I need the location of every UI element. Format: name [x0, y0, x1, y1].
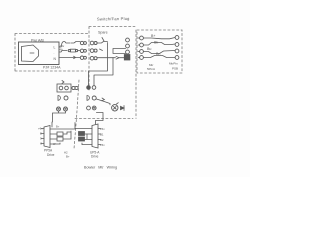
svg-text:5PinA: 5PinA — [147, 67, 155, 71]
svg-text:B+: B+ — [151, 34, 156, 38]
svg-text:Drive: Drive — [91, 155, 99, 159]
svg-text:E: E — [40, 132, 42, 136]
svg-text:N: N — [54, 57, 57, 61]
svg-text:Bu: Bu — [147, 47, 151, 51]
svg-text:Bk: Bk — [154, 41, 158, 45]
svg-text:PJ# 1234A: PJ# 1234A — [43, 66, 61, 70]
svg-text:Switch/Fan Plug: Switch/Fan Plug — [97, 16, 130, 22]
svg-text:4A: 4A — [60, 48, 63, 52]
svg-text:Drive: Drive — [47, 153, 55, 157]
svg-text:Spare: Spare — [98, 31, 108, 35]
svg-text:+6v: +6v — [38, 127, 43, 131]
svg-text:Bowler Mtr Wiring: Bowler Mtr Wiring — [84, 166, 117, 170]
svg-text:B2: B2 — [100, 138, 104, 142]
svg-text:B+: B+ — [66, 155, 70, 159]
svg-text:.: . — [54, 51, 55, 55]
svg-text:MtrPin: MtrPin — [169, 62, 178, 66]
svg-text:+5v: +5v — [100, 143, 105, 147]
svg-text:B+: B+ — [56, 125, 60, 129]
svg-text:PP5A: PP5A — [44, 149, 53, 153]
svg-text:Pwr A/B: Pwr A/B — [31, 39, 44, 43]
svg-text:B1: B1 — [100, 133, 104, 137]
svg-text:+5v: +5v — [100, 127, 105, 131]
svg-text:Bn: Bn — [156, 52, 160, 56]
svg-text:+12v: +12v — [59, 44, 65, 48]
svg-text:PSB: PSB — [172, 67, 178, 71]
svg-text:L: L — [54, 46, 56, 50]
